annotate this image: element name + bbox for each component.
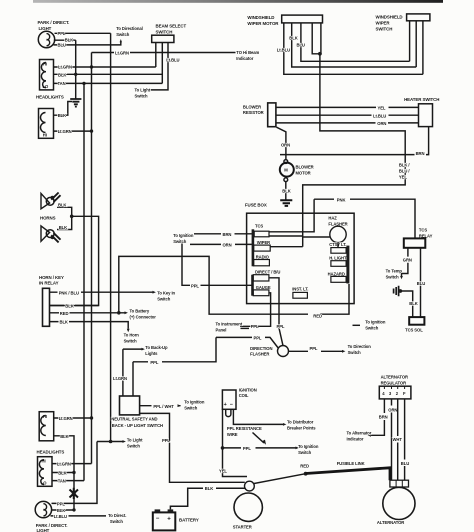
- svg-text:HAZ: HAZ: [328, 216, 337, 221]
- svg-text:FUSE BOX: FUSE BOX: [245, 203, 267, 208]
- wire Lt.BLU bottom lamp to direct switch: [51, 515, 107, 517]
- svg-text:STARTER: STARTER: [233, 524, 252, 529]
- svg-text:BLK: BLK: [205, 486, 213, 491]
- svg-text:(+) Connector: (+) Connector: [130, 314, 157, 319]
- svg-text:HI: HI: [43, 133, 47, 138]
- wire to light switch (bottom) junction: [97, 441, 123, 443]
- wire coil minus to distributor: [233, 409, 283, 424]
- wire BLK battery to starter: [170, 488, 244, 509]
- svg-text:INST. LT.: INST. LT.: [292, 287, 308, 292]
- svg-text:TO Hi Beam: TO Hi Beam: [236, 50, 259, 55]
- wire GRN relay to temp switch: [402, 248, 408, 277]
- svg-text:Lights: Lights: [145, 351, 158, 356]
- svg-text:To Light: To Light: [135, 88, 151, 93]
- svg-text:PPL: PPL: [58, 31, 66, 36]
- svg-text:BRN: BRN: [223, 232, 232, 237]
- wire TCS fuse out to PNK riser: [269, 199, 314, 232]
- wire PPL ignition to gauge bar: [182, 244, 252, 286]
- headlight connector H1 (HI/LO): [40, 60, 54, 90]
- svg-text:ALTERNATOR: ALTERNATOR: [381, 374, 408, 379]
- wire BLK ground to TCS sol: [400, 291, 412, 317]
- wire ORN regulator: [391, 399, 393, 480]
- svg-text:PPL: PPL: [162, 438, 170, 443]
- svg-text:BRN: BRN: [379, 415, 388, 420]
- svg-text:BLK: BLK: [59, 225, 67, 230]
- wire horn bus to relay: [50, 216, 99, 305]
- wire battery feed loop (gauge fuse to RED dot): [119, 256, 349, 314]
- wire PPL bus (vertical): [110, 33, 112, 441]
- svg-text:WINDSHIELD: WINDSHIELD: [376, 15, 403, 20]
- svg-text:−: −: [156, 516, 160, 522]
- svg-text:To Ignition: To Ignition: [298, 444, 319, 449]
- fuse bus bar right: [346, 246, 349, 284]
- wire BRN regulator to indicator: [371, 399, 384, 435]
- svg-text:To Battery: To Battery: [130, 308, 150, 313]
- svg-text:Switch: Switch: [365, 325, 379, 330]
- svg-text:Switch: Switch: [110, 519, 124, 524]
- wire BLK headlight4: [52, 472, 74, 474]
- svg-text:FLASHER: FLASHER: [250, 352, 269, 357]
- wire Lt.GRN headlight2 to bus: [54, 130, 92, 132]
- junction dot BLK bottom: [72, 471, 75, 474]
- wire haz flasher feed: [303, 236, 330, 238]
- svg-text:WIPER: WIPER: [376, 21, 391, 26]
- svg-text:PPL: PPL: [191, 283, 199, 288]
- svg-text:IN RELAY: IN RELAY: [39, 281, 59, 286]
- ignition coil T1: [222, 390, 236, 409]
- svg-text:BLK: BLK: [58, 203, 66, 208]
- svg-text:To Ignition: To Ignition: [173, 233, 194, 238]
- svg-text:YEL: YEL: [399, 174, 407, 179]
- svg-text:ORN: ORN: [388, 407, 397, 412]
- svg-text:PNK / BLU: PNK / BLU: [59, 290, 79, 295]
- wire Lt.GRN backup riser: [123, 349, 142, 396]
- headlight connector H3 (HI only, bottom): [39, 412, 54, 441]
- wire beam switch pin1 (Lt.GRN): [155, 43, 157, 68]
- svg-text:LIGHT: LIGHT: [39, 26, 52, 31]
- svg-text:PARK / DIRECT.: PARK / DIRECT.: [38, 20, 70, 25]
- svg-text:Indicator: Indicator: [347, 436, 364, 441]
- svg-text:BEAM SELECT: BEAM SELECT: [156, 24, 187, 29]
- svg-text:Switch: Switch: [298, 450, 312, 455]
- wire wiper switch riser 3: [422, 21, 424, 75]
- svg-text:+: +: [167, 516, 171, 522]
- svg-text:Switch: Switch: [124, 338, 138, 343]
- wire DIRECT/BU out to direction flasher: [269, 278, 283, 346]
- wire Lt.GRN headlight3: [54, 417, 92, 419]
- svg-text:BLU: BLU: [297, 43, 305, 48]
- svg-text:Switch: Switch: [386, 274, 400, 279]
- alternator connector: [390, 480, 409, 487]
- svg-text:Lt.GRN: Lt.GRN: [58, 65, 72, 70]
- svg-text:TAN: TAN: [58, 479, 66, 484]
- junction dot BLK: [74, 73, 77, 76]
- wire Lt.GRN headlight4: [52, 463, 92, 465]
- svg-text:BLK: BLK: [58, 471, 66, 476]
- wire BLK from lamp to ground riser: [54, 39, 76, 41]
- svg-text:TAN: TAN: [58, 81, 66, 86]
- wire BLK riser + long BLK/TAN junction wire y74.3: [75, 40, 77, 98]
- direction flasher FL2: [196, 337, 278, 361]
- svg-text:SWITCH: SWITCH: [376, 26, 393, 31]
- wire PNK TCS fuse to TCS relay: [314, 199, 415, 238]
- svg-text:To Light: To Light: [127, 437, 143, 442]
- wire BLU relay to TCS sol: [420, 248, 422, 317]
- svg-text:REGULATOR: REGULATOR: [381, 380, 406, 385]
- ground G1 (headlights): [70, 99, 81, 107]
- fuse bus bar left 2 (DIRECT/GAUGE): [251, 275, 254, 296]
- wire wiper pin2 BLK: [292, 23, 417, 67]
- wire BLU regulator: [404, 399, 406, 480]
- svg-text:To Distributor: To Distributor: [287, 419, 314, 424]
- svg-text:To Direct.: To Direct.: [108, 513, 126, 518]
- scan top bar: [33, 0, 443, 3]
- wire Lt.GRN headlight HI to bus: [54, 66, 156, 68]
- junction dot Lt.GRN bus 3: [90, 416, 93, 419]
- svg-text:TCS: TCS: [419, 228, 427, 233]
- horn HN2: [41, 226, 61, 243]
- svg-text:Lt.GRN: Lt.GRN: [115, 50, 129, 55]
- wire wiper switch riser 1: [409, 21, 411, 62]
- svg-text:BLK: BLK: [60, 434, 68, 439]
- svg-text:BLU: BLU: [417, 281, 425, 286]
- horn HN1: [41, 193, 61, 209]
- svg-text:PPL: PPL: [254, 335, 262, 340]
- wire Lt.GRN bus (vertical): [91, 53, 93, 464]
- wire BLK relay (to horn bus): [50, 305, 99, 307]
- junction dot TAN: [82, 82, 85, 85]
- junction dot Lt.GRN bus 2: [90, 129, 93, 132]
- wire beam switch pin2 (TAN): [161, 43, 163, 84]
- svg-text:BLOWER: BLOWER: [243, 104, 261, 109]
- wire BRN to TCS fuse: [194, 233, 252, 235]
- svg-text:BLK: BLK: [289, 36, 297, 41]
- svg-text:To Temp: To Temp: [386, 268, 403, 273]
- TCS solenoid: [409, 317, 424, 325]
- svg-text:Lt.GRN: Lt.GRN: [113, 376, 127, 381]
- starter solenoid: [245, 481, 255, 491]
- wire RED relay to battery connector: [50, 312, 125, 314]
- svg-text:Lt.GRN: Lt.GRN: [57, 462, 71, 467]
- svg-text:WINDSHIELD: WINDSHIELD: [247, 15, 274, 20]
- junction dot fusible link: [304, 472, 308, 476]
- svg-text:TCS SOL: TCS SOL: [405, 327, 423, 332]
- svg-text:To Horn: To Horn: [124, 332, 140, 337]
- svg-text:ORN: ORN: [377, 121, 386, 126]
- svg-text:Indicator: Indicator: [236, 56, 253, 61]
- wire Lt.BLU resistor-heater: [276, 114, 419, 116]
- svg-text:Lt.GRN: Lt.GRN: [59, 416, 73, 421]
- wire YEL resistor-heater: [276, 106, 419, 108]
- svg-text:−: −: [230, 402, 233, 408]
- wire TAN bus (vertical): [83, 83, 85, 480]
- wire PPL riser to bottom lamp: [52, 442, 98, 504]
- svg-text:To Instrument: To Instrument: [216, 322, 243, 327]
- headlight connector H4 (HI/LO bottom): [38, 457, 53, 487]
- svg-text:Lt.BLU: Lt.BLU: [373, 113, 386, 118]
- svg-text:To Directional: To Directional: [116, 26, 143, 31]
- wire Lt.GRN hi-beam indicator: [92, 52, 236, 54]
- wire blower feed diagonal: [277, 127, 286, 160]
- wire wiper feed detour to fuse: [303, 54, 406, 247]
- svg-text:BLK: BLK: [65, 38, 73, 43]
- svg-text:BLK: BLK: [60, 319, 68, 324]
- svg-text:RED: RED: [60, 311, 69, 316]
- svg-text:RED: RED: [313, 314, 322, 319]
- wire PPL neutral switch loop: [133, 362, 196, 396]
- svg-text:Switch: Switch: [348, 350, 362, 355]
- svg-text:HAZARD: HAZARD: [328, 271, 345, 276]
- wire wiper pin1 Lt.BLU: [284, 23, 423, 74]
- svg-text:BLU: BLU: [58, 43, 66, 48]
- svg-text:WIPER: WIPER: [257, 240, 270, 245]
- svg-text:BACK - UP LIGHT SWITCH: BACK - UP LIGHT SWITCH: [112, 423, 163, 428]
- svg-text:Switch: Switch: [116, 32, 130, 37]
- wire PPL coil to ignition switch: [223, 447, 296, 449]
- svg-text:PNK: PNK: [337, 197, 346, 202]
- wire BLK headlight2 hook to ground: [54, 102, 73, 116]
- starter MT1: [234, 493, 262, 521]
- svg-text:Switch: Switch: [135, 94, 149, 99]
- svg-text:YEL: YEL: [378, 105, 386, 110]
- svg-text:PPL: PPL: [243, 446, 251, 451]
- svg-text:Lt.BLU: Lt.BLU: [54, 514, 67, 519]
- svg-text:NEUTRAL SAFETY AND: NEUTRAL SAFETY AND: [111, 416, 157, 421]
- svg-text:BLK: BLK: [57, 508, 65, 513]
- junction dot BLK lamp: [72, 508, 75, 511]
- svg-text:PPL: PPL: [251, 324, 259, 329]
- svg-text:RED: RED: [300, 463, 309, 468]
- fusible link (thick): [306, 468, 390, 480]
- svg-text:PPL: PPL: [150, 360, 158, 365]
- junction dot horns: [70, 215, 74, 219]
- svg-text:HORNS: HORNS: [40, 216, 56, 221]
- alternator MT2: [383, 487, 415, 519]
- svg-text:HORN / KEY: HORN / KEY: [39, 275, 64, 280]
- svg-text:BLK: BLK: [282, 189, 290, 194]
- svg-text:+: +: [224, 402, 227, 408]
- wire PPL flasher to direction switch: [289, 350, 343, 352]
- svg-text:PPL RESISTANCE: PPL RESISTANCE: [227, 426, 262, 431]
- junction dot Lt.GRN: [90, 65, 93, 68]
- neutral safety switch S4: [120, 396, 140, 415]
- svg-text:GRN: GRN: [403, 258, 412, 263]
- ground G2 (blower): [280, 200, 292, 206]
- svg-text:BRN: BRN: [416, 151, 425, 156]
- wire wiper pin4 jog: [312, 23, 320, 54]
- svg-text:YEL: YEL: [219, 468, 227, 473]
- junction dot PPL bus bottom: [109, 440, 113, 444]
- svg-text:HEADLIGHTS: HEADLIGHTS: [36, 95, 64, 100]
- svg-text:RESISTOR: RESISTOR: [243, 110, 264, 115]
- svg-text:Lt.BLU: Lt.BLU: [277, 47, 290, 52]
- wire PPL from lamp to PPL bus: [55, 32, 111, 34]
- svg-text:Lt.GRN: Lt.GRN: [58, 129, 72, 134]
- svg-text:To Alternator: To Alternator: [347, 430, 372, 435]
- wire wiper pin5 from box corner: [320, 23, 322, 54]
- svg-text:WIPER MOTOR: WIPER MOTOR: [247, 21, 279, 26]
- svg-text:BATTERY: BATTERY: [179, 517, 199, 522]
- wire wiper switch riser 2: [415, 21, 417, 67]
- svg-text:Switch: Switch: [127, 443, 141, 448]
- svg-text:M: M: [284, 168, 288, 173]
- svg-text:ALTERNATOR: ALTERNATOR: [377, 520, 404, 525]
- svg-text:BLK: BLK: [65, 304, 73, 309]
- wire TAN headlight4: [52, 480, 84, 482]
- svg-text:Lt.BLU: Lt.BLU: [166, 57, 179, 62]
- svg-text:ORN: ORN: [223, 242, 232, 247]
- svg-text:TCS: TCS: [255, 224, 263, 229]
- svg-text:RADIO: RADIO: [256, 255, 270, 260]
- svg-text:HEATER SWITCH: HEATER SWITCH: [404, 97, 439, 102]
- svg-text:SWITCH: SWITCH: [156, 30, 173, 35]
- lamp L2 park/direct light bottom: [35, 501, 51, 517]
- svg-text:To Back-Up: To Back-Up: [145, 345, 168, 350]
- svg-text:PPL: PPL: [57, 501, 65, 506]
- svg-text:IGNITION: IGNITION: [239, 388, 257, 393]
- svg-text:BLU /: BLU /: [399, 168, 410, 173]
- blower motor M2: [284, 160, 288, 164]
- wire stub to ignition switch (red): [353, 324, 361, 326]
- battery B1: [153, 509, 176, 530]
- wire WHT regulator: [397, 399, 399, 480]
- wire beam switch pin3 (Lt.BLU to light switch): [151, 43, 169, 90]
- svg-text:WHT: WHT: [393, 437, 403, 442]
- wire flasher to CTSY: [337, 243, 339, 248]
- wire BLK headlight3 riser: [54, 436, 74, 510]
- wire TCS fuse stub to wiper feed: [269, 235, 303, 237]
- wire BRN heater to blower: [280, 127, 429, 155]
- svg-text:LIGHT: LIGHT: [37, 528, 50, 532]
- wire BLU from lamp to directional stub: [54, 42, 121, 45]
- svg-text:HEADLIGHTS: HEADLIGHTS: [37, 449, 65, 454]
- wire PNK/BLU to key-in switch: [50, 291, 153, 293]
- wire WIPER fuse out: [270, 246, 303, 248]
- wire solenoid to fusible link dot: [254, 474, 306, 484]
- svg-text:H. LIGHT: H. LIGHT: [329, 256, 347, 261]
- svg-text:To Ignition: To Ignition: [365, 319, 386, 324]
- svg-text:DIRECTION: DIRECTION: [250, 346, 272, 351]
- lamp L1 park/direct light top: [38, 31, 54, 47]
- junction dot coil feed: [221, 446, 225, 450]
- svg-text:PPL: PPL: [310, 346, 318, 351]
- svg-text:PPL: PPL: [277, 324, 285, 329]
- svg-text:Panel: Panel: [216, 328, 227, 333]
- svg-text:FUSIBLE LINK: FUSIBLE LINK: [337, 461, 365, 466]
- wire ORN resistor-heater: [276, 122, 419, 124]
- wire PPL neutral to starter solenoid: [140, 413, 245, 482]
- svg-text:To Key In: To Key In: [157, 290, 175, 295]
- junction dot RED feed: [117, 311, 121, 315]
- svg-text:Breaker Points: Breaker Points: [287, 425, 316, 430]
- horn/key in relay K1: [39, 275, 64, 326]
- svg-text:Switch: Switch: [173, 239, 187, 244]
- fuse bus bar left (TCS/WIPER/RADIO): [252, 229, 255, 266]
- wire BLK horn1: [57, 207, 72, 216]
- wire BLK bottom lamp: [52, 509, 75, 511]
- svg-text:Switch: Switch: [157, 296, 171, 301]
- svg-text:BLK: BLK: [58, 113, 66, 118]
- svg-text:MOTOR: MOTOR: [296, 170, 311, 175]
- svg-text:ORN: ORN: [281, 143, 290, 148]
- wire PPL/WHT to ignition switch: [140, 405, 181, 407]
- svg-text:BLK /: BLK /: [399, 162, 410, 167]
- wire BLK relay 2 to horn switch: [50, 322, 129, 329]
- ground G3 (tcs): [394, 286, 399, 296]
- svg-text:BLK: BLK: [58, 72, 66, 77]
- junction dot wiper feed: [318, 52, 322, 56]
- headlight connector H2 (HI only): [39, 109, 54, 139]
- beam select switch S1: [152, 24, 187, 43]
- wire wiper pin3 BLU: [301, 23, 410, 61]
- wire coil plus riser: [223, 409, 248, 476]
- wire ORN to WIPER fuse: [190, 243, 252, 245]
- ground G4 (star, bottom headlights): [70, 488, 79, 499]
- svg-text:BLOWER: BLOWER: [296, 164, 314, 169]
- svg-text:COIL: COIL: [239, 393, 249, 398]
- svg-text:DIRECT / B/U: DIRECT / B/U: [255, 269, 280, 274]
- wire GAUGE out to instrument panel: [240, 293, 271, 327]
- svg-text:Switch: Switch: [184, 405, 198, 410]
- svg-text:BLU: BLU: [401, 461, 409, 466]
- wire BLK blower to ground: [285, 182, 287, 200]
- svg-text:BLK: BLK: [409, 301, 417, 306]
- svg-text:To Direction: To Direction: [348, 344, 372, 349]
- wire TAN headlight LO to beam switch: [54, 82, 163, 84]
- svg-text:To Ignition: To Ignition: [184, 399, 205, 404]
- svg-text:PPL / WHT: PPL / WHT: [153, 404, 174, 409]
- svg-text:WIRE: WIRE: [227, 432, 238, 437]
- wire BLK horn2: [57, 216, 72, 229]
- svg-text:GAUGE: GAUGE: [256, 285, 271, 290]
